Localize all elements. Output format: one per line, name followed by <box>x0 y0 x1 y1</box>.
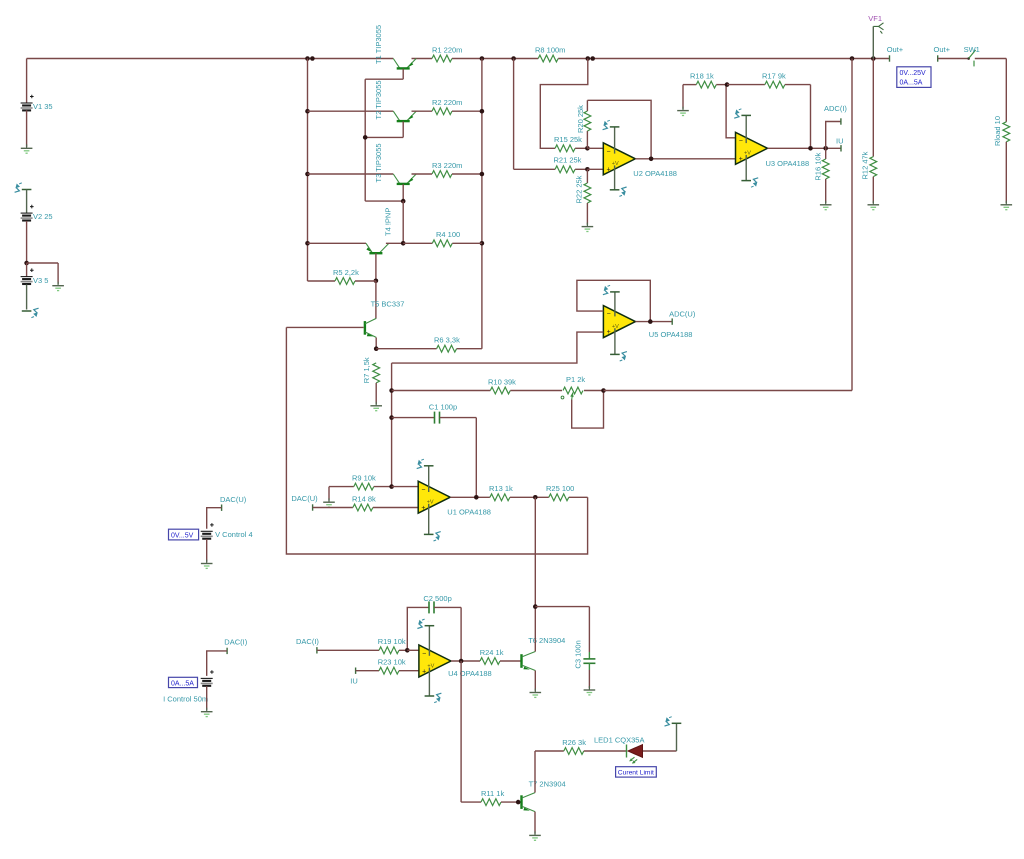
wire right rail <box>481 59 483 349</box>
wire sense to P1 row <box>851 59 853 391</box>
svg-text:+: + <box>421 505 425 512</box>
svg-text:0V...25V: 0V...25V <box>900 70 927 77</box>
resistor R10 39k <box>392 390 491 392</box>
power pins U1 <box>428 466 430 492</box>
svg-text:R12 47k: R12 47k <box>861 151 870 179</box>
svg-text:C1 100p: C1 100p <box>429 402 457 411</box>
potentiometer P1 2k <box>563 387 583 394</box>
svg-text:R8 100m: R8 100m <box>535 45 565 54</box>
wire R8 sense left <box>513 59 515 170</box>
svg-text:R2 220m: R2 220m <box>432 98 462 107</box>
wire feedback column <box>391 363 393 487</box>
svg-text:T3 TIP3055: T3 TIP3055 <box>374 143 383 182</box>
svg-text:ADC(U): ADC(U) <box>669 310 696 319</box>
wire LED to arrow <box>643 750 677 752</box>
wire T7 emitter <box>534 812 536 834</box>
svg-text:+: + <box>422 669 426 676</box>
svg-text:−: − <box>607 148 611 155</box>
svg-text:R18 1k: R18 1k <box>690 71 714 80</box>
resistor R16 10k <box>825 148 827 159</box>
svg-text:R22 25k: R22 25k <box>575 175 584 203</box>
resistor R18 1k <box>683 84 696 86</box>
svg-text:+V: +V <box>427 500 434 506</box>
terminal IU <box>840 145 842 151</box>
wire R17 to output <box>810 85 812 149</box>
label box Curent Limit <box>616 767 657 777</box>
svg-text:R7 1,5k: R7 1,5k <box>362 357 371 383</box>
svg-text:VF1: VF1 <box>868 14 882 23</box>
resistor R6 3,3k <box>376 348 436 350</box>
resistor R20 25k <box>586 131 588 148</box>
wire T5 base <box>286 326 363 328</box>
svg-text:+: + <box>607 166 611 173</box>
resistor R12 47k <box>872 59 874 157</box>
wire R8 sense right <box>540 59 588 149</box>
transistor T6 2N3904 <box>520 654 522 668</box>
svg-text:0V...5V: 0V...5V <box>171 533 194 540</box>
resistor R26 3k <box>535 750 564 752</box>
svg-text:R19 10k: R19 10k <box>378 637 406 646</box>
ground <box>57 282 59 286</box>
ground <box>682 85 684 109</box>
capacitor C1 100p <box>392 417 435 419</box>
svg-text:SW1: SW1 <box>964 45 980 54</box>
transistor T1 TIP3055 <box>393 59 400 69</box>
wire P1 wiper <box>572 391 604 429</box>
transistor T3 TIP3055 <box>308 173 394 175</box>
svg-text:R14 8k: R14 8k <box>352 494 376 503</box>
svg-text:P1 2k: P1 2k <box>566 375 585 384</box>
ground <box>534 689 536 693</box>
voltage pin VF1 <box>872 26 874 58</box>
svg-text:R20 25k: R20 25k <box>576 105 585 133</box>
wire U5 output <box>635 321 672 323</box>
svg-text:R25 100: R25 100 <box>546 484 574 493</box>
wire top rail <box>27 58 394 60</box>
svg-text:LED1 CQX35A: LED1 CQX35A <box>594 736 644 745</box>
node T5 emitter <box>375 338 377 349</box>
svg-text:R16 10k: R16 10k <box>814 152 823 180</box>
ground <box>588 686 590 690</box>
resistor R17 9k <box>727 84 765 86</box>
ground <box>375 402 377 406</box>
power arrow anode <box>672 722 682 724</box>
wire U3 output <box>768 147 842 149</box>
ground <box>206 560 208 564</box>
ground <box>534 831 536 835</box>
svg-text:0A...5A: 0A...5A <box>171 680 194 687</box>
svg-text:T2 TIP3055: T2 TIP3055 <box>374 80 383 119</box>
wire U2 feedback <box>587 100 651 159</box>
svg-text:R17 9k: R17 9k <box>762 71 786 80</box>
svg-text:+: + <box>607 329 611 336</box>
resistor R11 1k <box>461 801 481 803</box>
wire U5 +input sense <box>392 332 604 363</box>
resistor R23 10k <box>356 670 379 672</box>
terminal Out+ left <box>889 55 891 61</box>
op-amp U5 OPA4188 <box>603 306 635 338</box>
svg-text:U4 OPA4188: U4 OPA4188 <box>448 669 492 678</box>
wire to ground <box>27 262 58 264</box>
transistor T2 TIP3055 <box>308 110 394 112</box>
svg-text:R9 10k: R9 10k <box>352 473 376 482</box>
resistor R2 220m <box>432 108 452 115</box>
transistor T4 !PNP <box>308 242 367 244</box>
power pins U3 <box>745 115 747 143</box>
terminal Out+ right <box>937 55 939 61</box>
wire T7 collector <box>534 751 536 793</box>
svg-text:DAC(U): DAC(U) <box>291 494 318 503</box>
svg-text:V1 35: V1 35 <box>33 102 53 111</box>
svg-text:U3 OPA4188: U3 OPA4188 <box>766 159 810 168</box>
svg-text:R10 39k: R10 39k <box>488 377 516 386</box>
capacitor C2 500p <box>407 607 429 650</box>
wire T5 collector <box>375 281 377 319</box>
svg-text:+V: +V <box>612 161 619 167</box>
resistor R19 10k <box>317 649 379 651</box>
resistor R3 220m <box>432 171 452 178</box>
resistor R8 100m <box>538 55 558 62</box>
ground <box>872 201 874 205</box>
resistor R24 1k <box>480 658 500 665</box>
wire left rail <box>307 59 309 282</box>
ground <box>26 144 28 148</box>
svg-text:+: + <box>739 156 743 163</box>
wire U5 feedback <box>577 280 650 321</box>
svg-text:ADC(I): ADC(I) <box>824 104 847 113</box>
svg-text:T6 2N3904: T6 2N3904 <box>528 636 565 645</box>
resistor R25 100 <box>549 494 569 501</box>
svg-text:V3 5: V3 5 <box>33 276 48 285</box>
wire C1 to U1 output <box>475 418 477 498</box>
svg-text:T1 TIP3055: T1 TIP3055 <box>374 25 383 64</box>
battery V3 5 <box>26 263 28 277</box>
resistor R9 10k <box>329 486 354 488</box>
svg-text:IU: IU <box>836 137 844 146</box>
svg-text:R1 220m: R1 220m <box>432 45 462 54</box>
resistor R15 25k <box>555 145 575 152</box>
svg-text:−: − <box>739 138 743 145</box>
svg-text:V Control 4: V Control 4 <box>215 530 253 539</box>
resistor Rload 10 <box>1005 59 1007 122</box>
svg-text:U2 OPA4188: U2 OPA4188 <box>633 169 677 178</box>
svg-text:Out+: Out+ <box>887 45 904 54</box>
terminal DAC(I) source <box>226 648 228 654</box>
svg-text:C2 500p: C2 500p <box>423 594 451 603</box>
power pins U4 <box>428 626 430 656</box>
svg-text:T5 BC337: T5 BC337 <box>371 300 405 309</box>
svg-text:−: − <box>421 487 425 494</box>
svg-text:R4 100: R4 100 <box>436 230 460 239</box>
resistor R22 25k <box>586 169 588 183</box>
svg-text:Curent Limit: Curent Limit <box>618 770 654 777</box>
terminal IU at U4 <box>355 668 357 674</box>
svg-text:V2 25: V2 25 <box>33 212 53 221</box>
wire T6 emitter <box>534 671 536 691</box>
resistor R7 1,5k <box>373 363 380 383</box>
ground <box>206 708 208 712</box>
svg-text:R3 220m: R3 220m <box>432 161 462 170</box>
wire R13-R25 node down <box>534 497 536 606</box>
svg-text:R6 3,3k: R6 3,3k <box>434 336 460 345</box>
capacitor C3 100n <box>588 607 590 652</box>
resistor R21 25k <box>555 166 575 173</box>
wire T4 base <box>375 253 377 281</box>
svg-text:Out+: Out+ <box>934 45 951 54</box>
ground <box>1005 201 1007 205</box>
resistor R13 1k <box>490 494 510 501</box>
terminal ADC(I) <box>826 122 841 149</box>
ground <box>825 201 827 205</box>
op-amp U4 OPA4188 <box>419 645 451 677</box>
power arrow -V <box>22 310 32 312</box>
terminal ADC(U) <box>671 318 673 324</box>
terminal DAC(I) at U4 <box>316 647 318 653</box>
node V2-V3 junction <box>24 261 29 266</box>
wire U2 output <box>635 158 735 160</box>
svg-text:R5 2,2k: R5 2,2k <box>333 268 359 277</box>
wire U4 output down <box>460 661 462 802</box>
terminal DAC(U) <box>312 504 314 510</box>
ground <box>586 223 588 227</box>
svg-text:Rload 10: Rload 10 <box>993 116 1002 146</box>
wire base bus <box>402 69 404 80</box>
wire feedback to T5 base <box>286 327 587 554</box>
value box 0V...25V 0A...5A <box>897 67 931 88</box>
svg-text:DAC(U): DAC(U) <box>220 495 247 504</box>
svg-text:+V: +V <box>427 663 434 669</box>
svg-text:I Control 50m: I Control 50m <box>163 695 208 704</box>
wire U1 output <box>450 496 490 498</box>
svg-text:R13 1k: R13 1k <box>489 484 513 493</box>
svg-text:R21 25k: R21 25k <box>554 156 582 165</box>
op-amp U2 OPA4188 <box>603 143 635 175</box>
wire <box>412 110 433 112</box>
resistor R5 2,2k <box>308 280 336 282</box>
svg-text:R23 10k: R23 10k <box>378 658 406 667</box>
svg-text:R15 25k: R15 25k <box>554 135 582 144</box>
svg-text:R24 1k: R24 1k <box>480 648 504 657</box>
terminal DAC(U) source <box>221 505 223 511</box>
power pins U5 <box>614 292 616 317</box>
battery I Control 50m <box>207 651 227 676</box>
wire <box>386 242 403 244</box>
transistor T5 BC337 <box>364 321 366 335</box>
power pins U2 <box>614 127 616 154</box>
power arrow +V <box>22 189 32 191</box>
battery V1 35 <box>26 59 28 104</box>
resistor R1 220m <box>432 55 452 62</box>
wire P1 row to sense <box>604 390 853 392</box>
op-amp U1 OPA4188 <box>418 481 450 513</box>
svg-text:IU: IU <box>350 676 358 685</box>
svg-text:0A...5A: 0A...5A <box>900 80 923 87</box>
op-amp U3 OPA4188 <box>736 132 768 164</box>
transistor T7 2N3904 <box>520 795 522 809</box>
svg-text:R26 3k: R26 3k <box>562 738 586 747</box>
LED LED1 CQX35A <box>626 745 628 758</box>
svg-text:U1 OPA4188: U1 OPA4188 <box>447 508 491 517</box>
resistor R4 100 <box>432 240 452 247</box>
svg-text:U5 OPA4188: U5 OPA4188 <box>649 330 693 339</box>
ground <box>328 487 330 501</box>
battery V Control 4 <box>207 508 222 529</box>
svg-text:−: − <box>607 311 611 318</box>
wire <box>412 173 433 175</box>
svg-text:−: − <box>422 651 426 658</box>
wire U4 output <box>451 660 480 662</box>
svg-text:R11 1k: R11 1k <box>481 789 504 798</box>
wire U3 inverting input <box>726 85 735 138</box>
resistor R14 8k <box>313 507 353 509</box>
svg-text:+V: +V <box>744 151 751 157</box>
svg-text:T4 !PNP: T4 !PNP <box>384 208 393 236</box>
svg-text:T7 2N3904: T7 2N3904 <box>529 779 566 788</box>
svg-text:DAC(I): DAC(I) <box>296 637 319 646</box>
svg-text:DAC(I): DAC(I) <box>224 638 247 647</box>
wire T6 collector <box>534 607 536 652</box>
battery V2 25 <box>26 190 28 214</box>
svg-text:C3 100n: C3 100n <box>574 640 583 668</box>
switch SW1 <box>938 58 968 60</box>
